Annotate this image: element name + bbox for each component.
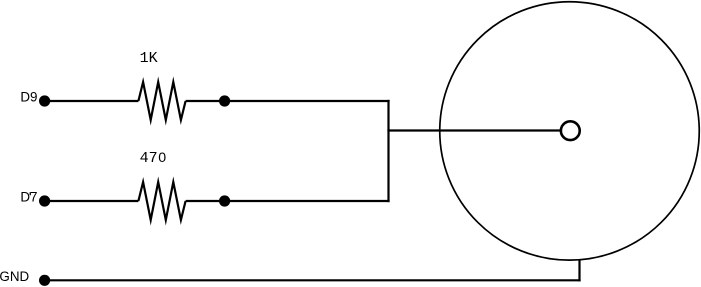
node D9 terminal dot — [39, 95, 50, 106]
wire GND horizontal — [45, 279, 581, 281]
junction dot row 2 — [219, 195, 230, 206]
wire GND riser to buzzer — [578, 260, 580, 282]
wire vertical bus — [387, 100, 389, 202]
node D7 terminal dot — [39, 195, 50, 206]
svg-text:GND: GND — [0, 269, 29, 284]
buzzer body circle — [440, 2, 700, 260]
resistor R1 — [138, 82, 185, 120]
svg-text:47: 47 — [140, 150, 158, 167]
svg-text:D9: D9 — [20, 89, 37, 104]
svg-text:0: 0 — [158, 150, 166, 166]
wire R1 to bus — [186, 100, 390, 102]
wire R2 to bus — [186, 200, 390, 202]
wire D7 to resistor R2 — [45, 200, 139, 202]
junction dot row 1 — [219, 95, 230, 106]
node GND terminal dot — [39, 275, 50, 286]
wire D9 to resistor R1 — [45, 100, 139, 102]
svg-text:1K: 1K — [140, 50, 158, 67]
svg-text:D7: D7 — [20, 189, 37, 204]
resistor R2 — [138, 182, 185, 220]
buzzer terminal small circle — [561, 121, 580, 140]
wire bus to buzzer terminal — [387, 129, 561, 131]
D7 label 7 serif detail — [30, 192, 31, 195]
